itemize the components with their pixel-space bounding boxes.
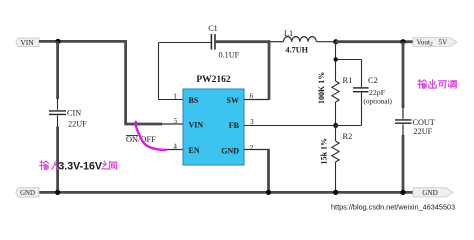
- capacitor CIN: [49, 111, 66, 115]
- svg-text:(optional): (optional): [364, 98, 393, 106]
- wire VIN to pin 5: [124, 40, 183, 124]
- svg-text:R1: R1: [343, 76, 353, 85]
- port GND left: [16, 188, 39, 197]
- resistor R1: [332, 81, 339, 102]
- junction ground COUT: [400, 190, 405, 195]
- svg-text:4.7UH: 4.7UH: [286, 46, 309, 55]
- IC U1 PW2162 buck regulator body: [183, 89, 244, 165]
- port GND right: [413, 188, 453, 197]
- inductor L1: [270, 37, 336, 42]
- svg-text:GND: GND: [20, 190, 35, 197]
- wire VIN rail top: [39, 40, 127, 43]
- svg-text:EN: EN: [189, 146, 200, 155]
- port VIN: [16, 38, 39, 47]
- wire C1 to SW node: [216, 40, 270, 43]
- svg-text:4: 4: [173, 142, 177, 151]
- wire C2 branch: [336, 60, 362, 126]
- svg-text:2: 2: [250, 143, 254, 152]
- wire BS loop (pin 1 to C1): [159, 43, 212, 100]
- svg-text:https://blog.csdn.net/weixin_4: https://blog.csdn.net/weixin_46345503: [331, 203, 455, 212]
- svg-text:GND: GND: [422, 189, 438, 197]
- wire R2 top stub: [335, 126, 337, 142]
- wire output rail: [336, 40, 414, 43]
- wire SW vertical: [268, 40, 271, 100]
- svg-text:5: 5: [174, 116, 178, 125]
- wire COUT vertical: [402, 42, 405, 193]
- wire input rail vertical (left): [56, 41, 59, 192]
- wire EN enable annotation (magenta): [134, 122, 166, 150]
- svg-text:PW2162: PW2162: [196, 75, 231, 85]
- wire GND pin to ground rail: [244, 149, 269, 193]
- svg-text:SW: SW: [227, 96, 239, 105]
- svg-text:VIN: VIN: [189, 120, 204, 129]
- wire SW stub (pin 6): [244, 99, 269, 101]
- svg-text:15k 1%: 15k 1%: [320, 138, 329, 164]
- svg-text:3.3V-16V: 3.3V-16V: [58, 160, 102, 172]
- svg-text:22UF: 22UF: [414, 127, 433, 136]
- capacitor C1: [211, 34, 215, 50]
- svg-text:GND: GND: [221, 146, 239, 155]
- wire ground rail: [39, 191, 414, 194]
- wire feedback chain top (node to R1): [335, 42, 337, 81]
- svg-text:COUT: COUT: [413, 118, 435, 127]
- svg-text:22UF: 22UF: [68, 120, 87, 129]
- svg-text:C1: C1: [208, 24, 218, 33]
- svg-text:BS: BS: [189, 96, 199, 105]
- capacitor C2: [353, 88, 369, 92]
- junction ground R2: [333, 190, 338, 195]
- svg-text:VIN: VIN: [20, 38, 34, 47]
- junction COUT node: [400, 39, 405, 44]
- junction C2 top: [334, 57, 338, 61]
- svg-text:0.1UF: 0.1UF: [219, 51, 240, 60]
- wire R2 bottom to ground: [335, 162, 337, 192]
- junction ground CIN: [55, 190, 60, 195]
- svg-text:22pF: 22pF: [369, 88, 386, 97]
- port Vout2 5V: [413, 38, 457, 48]
- junction ground chip: [266, 190, 271, 195]
- svg-text:FB: FB: [229, 121, 240, 130]
- svg-text:3: 3: [250, 117, 254, 126]
- svg-text:L1: L1: [284, 29, 293, 38]
- svg-text:C2: C2: [368, 76, 378, 85]
- wire EN stub: [163, 149, 183, 151]
- svg-text:100K 1%: 100K 1%: [317, 72, 326, 104]
- annotation output adjustable text (magenta): [418, 80, 457, 89]
- wire R1 bottom to FB node: [335, 102, 337, 126]
- svg-text:CIN: CIN: [67, 109, 81, 118]
- junction FB node: [333, 123, 338, 128]
- svg-text:R2: R2: [343, 132, 353, 141]
- junction output node left: [333, 39, 338, 44]
- resistor R2: [332, 141, 339, 162]
- svg-text:6: 6: [250, 91, 254, 100]
- capacitor COUT: [395, 120, 412, 123]
- annotation input range text (magenta): [40, 160, 117, 172]
- wire FB stub (pin 3): [244, 125, 337, 127]
- junction input node: [55, 39, 60, 44]
